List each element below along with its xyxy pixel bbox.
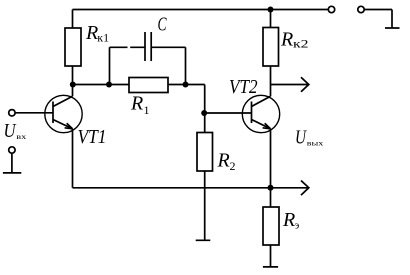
svg-text:R: R [282, 209, 295, 231]
svg-text:вых: вых [307, 138, 324, 147]
svg-text:э: э [295, 220, 300, 231]
svg-text:к2: к2 [293, 37, 309, 51]
svg-text:R: R [85, 22, 98, 44]
svg-text:VT2: VT2 [229, 76, 258, 98]
svg-text:к1: к1 [97, 31, 109, 45]
svg-text:U: U [295, 127, 307, 149]
svg-text:U: U [4, 120, 17, 142]
svg-text:вх: вх [16, 132, 26, 141]
svg-text:R: R [280, 29, 293, 51]
svg-text:R: R [130, 93, 143, 115]
svg-text:1: 1 [144, 103, 150, 117]
svg-text:VT1: VT1 [78, 126, 107, 148]
svg-text:2: 2 [230, 159, 236, 173]
svg-text:C: C [158, 14, 167, 36]
svg-text:R: R [217, 150, 230, 172]
